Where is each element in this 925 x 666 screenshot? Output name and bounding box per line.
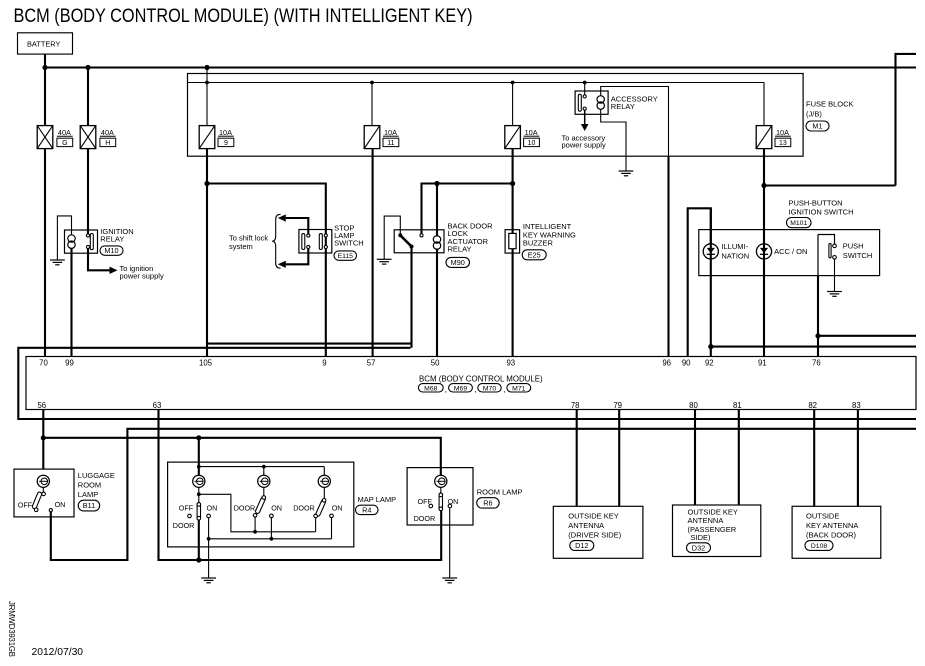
connector M1	[806, 121, 829, 131]
connector E25	[522, 250, 546, 260]
connector M71	[507, 384, 531, 392]
room lamp OFF contact	[429, 504, 433, 508]
wire BCM pin82 to D108	[813, 410, 815, 507]
ign relay switch capsule	[90, 234, 93, 250]
svg-text:D108: D108	[811, 543, 827, 550]
outside key antenna back door box D108	[792, 506, 881, 558]
svg-text:96: 96	[662, 358, 671, 367]
svg-text:OFF: OFF	[18, 500, 33, 509]
push switch capsule	[829, 244, 831, 258]
svg-text:ON: ON	[207, 503, 218, 512]
node inner bus acc relay	[583, 81, 587, 85]
stop lamp switch box E115	[299, 230, 332, 254]
svg-text:D32: D32	[692, 543, 705, 552]
push-button ignition switch box M101	[699, 230, 880, 276]
wire map lamp ground drop	[208, 539, 210, 578]
connector D108	[805, 541, 833, 551]
wire map lamp switch common	[198, 519, 200, 560]
svg-text:E115: E115	[338, 253, 354, 260]
connector R4	[356, 505, 379, 514]
back door lock actuator relay box M90	[394, 230, 444, 253]
ign relay contact bottom	[86, 245, 89, 248]
svg-text:BCM (BODY CONTROL MODULE) (WIT: BCM (BODY CONTROL MODULE) (WITH INTELLIG…	[14, 6, 473, 27]
wire pin92 to right edge	[711, 346, 916, 348]
node on bus sw2	[270, 537, 274, 541]
svg-text:ANTENNA: ANTENNA	[568, 521, 604, 530]
wire sw3 door drop	[315, 518, 317, 532]
LED illumination	[703, 244, 718, 259]
wire back door relay to pin105 line	[207, 343, 412, 345]
svg-text:MAP LAMP: MAP LAMP	[358, 495, 397, 504]
svg-text:SWITCH: SWITCH	[334, 239, 364, 248]
svg-text:(BACK DOOR): (BACK DOOR)	[806, 531, 857, 540]
map lamp box R4	[168, 462, 354, 547]
stop lamp sw capsule right	[319, 234, 322, 250]
stop lamp contact bottom-left	[307, 245, 310, 248]
stop lamp contact top-right	[324, 234, 327, 237]
node battery-fuseG junction	[42, 65, 47, 70]
connector M68	[418, 384, 443, 392]
luggage lever end	[34, 508, 38, 512]
wire battery bus	[45, 66, 916, 68]
wire stop lamp arrow top	[286, 218, 309, 234]
svg-text:ROOM: ROOM	[78, 481, 101, 490]
ground back door relay	[377, 259, 392, 264]
svg-text:99: 99	[65, 358, 74, 367]
wire ign relay coil to ground	[57, 216, 71, 260]
node on bus sw1	[207, 537, 211, 541]
svg-text:40A: 40A	[101, 128, 114, 137]
outside key antenna passenger side box D32	[673, 505, 761, 557]
wire fuse9 top stub	[206, 83, 208, 126]
wire BCM pin90 to illumination	[688, 208, 711, 356]
svg-text:M69: M69	[454, 385, 467, 392]
stop lamp contact top-left	[307, 234, 310, 237]
node back door relay coil junction	[434, 181, 439, 186]
svg-text:M71: M71	[512, 385, 525, 392]
connector D12	[570, 541, 594, 551]
map lamp bulb 1	[193, 475, 205, 487]
svg-text:H: H	[105, 140, 110, 147]
wire map lamp inner bus	[199, 466, 324, 468]
svg-text:63: 63	[153, 401, 162, 410]
svg-text:9: 9	[224, 140, 228, 147]
stop lamp sw capsule left	[302, 234, 305, 250]
wire BCM pin83 to D108	[857, 410, 859, 507]
wire back door relay ground	[384, 216, 400, 259]
fuse 13 (10A)	[756, 126, 772, 149]
fuse 9 (10A)	[199, 126, 215, 149]
wire luggage lamp return	[51, 429, 916, 560]
wire BCM pin80 to D32	[694, 410, 696, 506]
svg-text:10: 10	[528, 140, 536, 147]
node battery-fuseH junction	[85, 65, 90, 70]
wire BCM pin81 to D32	[738, 410, 740, 506]
wire door contacts bus	[199, 494, 316, 532]
ground map lamp	[201, 578, 216, 583]
svg-text:M10: M10	[104, 246, 118, 255]
node bulb1 door junction	[197, 492, 201, 496]
svg-text:power supply: power supply	[120, 271, 164, 280]
svg-text:57: 57	[367, 358, 376, 367]
map switch1 capsule	[197, 503, 200, 520]
svg-text:BATTERY: BATTERY	[27, 40, 60, 49]
map switch3 lever	[315, 499, 326, 517]
svg-text:OFF: OFF	[179, 503, 194, 512]
svg-text:,: ,	[445, 385, 447, 394]
svg-text:ROOM LAMP: ROOM LAMP	[477, 488, 523, 497]
map switch1 ON contact	[207, 514, 211, 518]
svg-text:OUTSIDE: OUTSIDE	[806, 512, 839, 521]
map switch3 DOOR contact	[314, 514, 318, 518]
svg-text:DOOR: DOOR	[234, 503, 256, 512]
wire push switch to ground	[834, 259, 836, 291]
wire acc relay coil to pin96	[601, 87, 669, 157]
svg-text:PUSH-BUTTON: PUSH-BUTTON	[789, 199, 843, 208]
svg-text:PUSH: PUSH	[843, 241, 864, 250]
svg-text:DOOR: DOOR	[293, 503, 315, 512]
svg-text:BUZZER: BUZZER	[523, 239, 554, 248]
svg-text:JRMWD3931GB: JRMWD3931GB	[7, 601, 16, 657]
svg-text:OUTSIDE KEY: OUTSIDE KEY	[568, 512, 618, 521]
svg-text:70: 70	[39, 358, 48, 367]
wire bulb2 drop	[263, 467, 265, 476]
svg-text:M68: M68	[424, 385, 437, 392]
arrow to accessory power supply	[581, 124, 589, 131]
wire fuse10 down	[512, 149, 514, 184]
svg-text:LAMP: LAMP	[78, 490, 98, 499]
map lamp bulb 2	[258, 475, 270, 487]
wire push switch bracket	[818, 235, 835, 245]
ground acc relay coil	[619, 171, 634, 176]
luggage switch pivot	[42, 492, 46, 496]
svg-text:9: 9	[322, 358, 326, 367]
map switch2 ON contact	[270, 514, 274, 518]
room lamp ON contact	[448, 504, 452, 508]
node map lamp feed junction	[196, 435, 201, 440]
wire luggage bulb to pivot	[42, 487, 44, 492]
wire fuse13 to BCM pin91	[763, 149, 765, 357]
svg-text:system: system	[229, 242, 253, 251]
ground ignition relay	[50, 260, 65, 265]
wire ON contacts bus	[209, 518, 332, 539]
node pin92 junction	[708, 344, 713, 349]
wire battery drop to inner bus	[206, 68, 208, 83]
svg-text:M90: M90	[451, 258, 465, 267]
svg-text:91: 91	[758, 358, 767, 367]
wire to ignition power supply	[88, 249, 110, 271]
wire fuse11 top stub	[371, 83, 373, 126]
luggage room lamp box B11	[14, 469, 74, 517]
connector M70	[478, 384, 501, 392]
fusible link G (40A)	[37, 126, 53, 149]
svg-text:DOOR: DOOR	[414, 514, 436, 523]
svg-text:B11: B11	[83, 501, 95, 510]
svg-text:SIDE): SIDE)	[691, 533, 712, 542]
svg-text:KEY ANTENNA: KEY ANTENNA	[806, 521, 858, 530]
map switch2 lever	[255, 496, 266, 514]
node battery-fuseblock junction	[204, 65, 209, 70]
svg-text:M101: M101	[790, 220, 807, 227]
connector M90	[446, 257, 470, 267]
svg-text:,: ,	[503, 385, 505, 394]
node fuse9 stop lamp junction	[204, 181, 209, 186]
wire fuse block inner bus	[188, 82, 764, 84]
room lamp switch capsule	[439, 493, 442, 511]
wire stop lamp arrow bottom	[286, 249, 309, 265]
node pin76 junction	[815, 333, 820, 338]
BCM (body control module) box	[26, 357, 916, 410]
wire wrap line	[18, 348, 916, 419]
svg-text:power supply: power supply	[562, 141, 606, 150]
wire acc relay to BCM pin96	[667, 156, 669, 356]
connector D32	[687, 543, 711, 553]
map lamp bulb 3	[318, 475, 330, 487]
svg-text:90: 90	[682, 358, 691, 367]
svg-text:81: 81	[733, 401, 742, 410]
fuse block (J/B) box	[188, 74, 804, 157]
wire map lamp feed drop	[198, 438, 200, 476]
wire fuse10 to relay	[422, 184, 513, 234]
accessory relay box	[575, 91, 608, 114]
svg-text:DOOR: DOOR	[173, 521, 195, 530]
stop lamp contact bottom-right	[324, 245, 327, 248]
svg-text:M70: M70	[483, 385, 496, 392]
svg-text:10A: 10A	[525, 128, 538, 137]
node map inner bus b1	[197, 465, 201, 469]
wire fuse G to BCM pin70	[44, 149, 46, 357]
svg-text:80: 80	[689, 401, 698, 410]
connector M69	[449, 384, 473, 392]
svg-text:R6: R6	[483, 499, 492, 508]
svg-text:83: 83	[852, 401, 861, 410]
wire room lamp ON to ground	[449, 508, 451, 578]
svg-text:RELAY: RELAY	[100, 234, 124, 243]
svg-text:ON: ON	[332, 503, 343, 512]
ground push switch	[827, 292, 842, 297]
acc relay contact top	[583, 95, 586, 98]
wire ign relay coil to BCM pin99	[70, 249, 72, 357]
svg-text:82: 82	[808, 401, 817, 410]
svg-text:OFF: OFF	[418, 497, 433, 506]
buzzer element	[509, 233, 516, 248]
map switch2 DOOR contact	[253, 514, 257, 518]
svg-text:G: G	[62, 140, 67, 147]
wire fuse10 to BCM pin93	[512, 184, 514, 357]
wire fuse11 to BCM pin57	[372, 149, 374, 357]
wire top-right step	[896, 54, 917, 186]
wire BCM pin63 down	[159, 410, 442, 561]
connector B11	[78, 500, 100, 511]
wire bulb1 to switch1	[198, 487, 200, 502]
push switch contact top	[833, 244, 837, 248]
back door relay arm	[400, 235, 411, 246]
svg-text:11: 11	[387, 140, 394, 147]
arrow to shift lock bottom	[278, 261, 286, 268]
wire sw2 door drop	[254, 517, 256, 532]
svg-text:IGNITION SWITCH: IGNITION SWITCH	[789, 208, 854, 217]
acc relay contact bottom	[583, 107, 586, 110]
svg-text:76: 76	[812, 358, 821, 367]
node inner bus fuse11	[370, 81, 374, 85]
node map inner bus b2	[262, 465, 266, 469]
wire pin76 to right edge	[818, 335, 916, 337]
svg-text:10A: 10A	[776, 128, 789, 137]
node door bus sw2	[253, 530, 257, 534]
wire sw2 on drop	[270, 517, 272, 538]
wire stop lamp branch	[207, 184, 326, 357]
wire bus to fusible link H	[87, 68, 89, 126]
arrow to ignition power supply	[110, 267, 118, 274]
wire BCM pin79 to D12	[618, 410, 620, 507]
wire fuse H to ignition relay	[87, 149, 89, 234]
luggage lamp bulb	[37, 475, 49, 487]
connector R6	[477, 498, 500, 508]
back door relay coil	[433, 236, 440, 243]
arrow to shift lock top	[278, 214, 286, 221]
node map lamp return junction	[196, 557, 201, 562]
node fuse10 junction	[510, 181, 515, 186]
wire room bulb to switch	[440, 487, 442, 492]
wire fuse13 to right edge	[764, 184, 896, 186]
svg-text:FUSE BLOCK: FUSE BLOCK	[806, 100, 854, 109]
wire illumination to BCM pin92	[710, 208, 712, 356]
back door relay fixed contact	[420, 234, 423, 237]
svg-text:RELAY: RELAY	[448, 245, 472, 254]
wire bus to fusible link G	[44, 68, 46, 126]
wire battery to bus	[44, 54, 46, 67]
push switch contact bottom	[833, 255, 837, 259]
intelligent key warning buzzer box E25	[505, 230, 519, 253]
wire back door relay coil top	[436, 184, 438, 237]
fusible link H (40A)	[80, 126, 96, 149]
outside key antenna driver side box D12	[553, 506, 643, 558]
svg-text:LUGGAGE: LUGGAGE	[78, 471, 115, 480]
wire BCM pin56 down	[42, 410, 44, 470]
brace to shift lock	[272, 214, 280, 268]
acc relay switch capsule	[578, 94, 581, 111]
node inner bus fuse9	[205, 81, 209, 85]
svg-text:10A: 10A	[219, 128, 232, 137]
connector M10	[100, 246, 123, 255]
map switch2 pivot	[262, 496, 266, 500]
map switch3 pivot	[322, 499, 326, 503]
wire to accessory power supply	[584, 110, 586, 124]
wire push switch to BCM pin76	[817, 235, 819, 276]
svg-text:RELAY: RELAY	[611, 102, 635, 111]
svg-text:92: 92	[705, 358, 714, 367]
svg-text:BCM (BODY CONTROL MODULE): BCM (BODY CONTROL MODULE)	[419, 375, 543, 384]
svg-text:ILLUMI-: ILLUMI-	[721, 242, 748, 251]
acc relay coil	[597, 96, 604, 103]
room lamp box R6	[407, 468, 473, 525]
map switch1 OFF contact	[188, 514, 192, 518]
wire back door relay switch output	[410, 247, 412, 348]
ignition relay box M10	[65, 230, 98, 253]
LED acc/on	[756, 244, 771, 259]
svg-text:78: 78	[571, 401, 580, 410]
svg-text:M1: M1	[812, 122, 822, 131]
svg-text:(DRIVER SIDE): (DRIVER SIDE)	[568, 531, 621, 540]
wire sw3 pivot	[323, 487, 325, 498]
luggage ON contact	[49, 509, 52, 512]
wire back door relay coil to BCM pin50	[436, 249, 438, 357]
svg-text:2012/07/30: 2012/07/30	[32, 647, 84, 658]
node inner bus fuse10	[511, 81, 515, 85]
svg-text:10A: 10A	[384, 128, 397, 137]
wire bulb3 drop	[323, 467, 325, 476]
wire fuse10 top stub	[512, 83, 514, 126]
svg-text:ACC / ON: ACC / ON	[774, 247, 807, 256]
svg-text:93: 93	[506, 358, 515, 367]
back door relay pivot	[398, 233, 402, 237]
svg-text:(J/B): (J/B)	[806, 110, 822, 119]
connector M101	[787, 218, 812, 228]
wire fuse13 top stub	[763, 83, 765, 126]
svg-text:,: ,	[474, 385, 476, 394]
fuse 10 (10A)	[505, 126, 521, 149]
wire sw3 on drop	[331, 517, 333, 538]
wire BCM pin78 to D12	[576, 410, 578, 507]
svg-text:ON: ON	[55, 500, 66, 509]
fuse 11 (10A)	[364, 126, 380, 149]
ign relay coil	[68, 235, 75, 242]
luggage switch lever	[32, 491, 42, 509]
wire pin56 lamp feed line	[43, 438, 441, 476]
svg-text:R4: R4	[362, 506, 371, 515]
wire sw2 pivot	[263, 487, 265, 496]
svg-text:79: 79	[613, 401, 622, 410]
ign relay contact top	[86, 234, 89, 237]
connector E115	[334, 251, 357, 260]
wire acc relay coil to ground	[601, 109, 626, 170]
wire fuse9 to BCM pin105	[206, 149, 208, 357]
svg-text:D12: D12	[575, 541, 588, 550]
svg-text:ON: ON	[448, 497, 459, 506]
svg-text:56: 56	[37, 401, 46, 410]
node fuse13 junction	[761, 183, 766, 188]
svg-text:E25: E25	[528, 250, 541, 259]
wire acc relay switch drop	[584, 83, 586, 96]
svg-text:NATION: NATION	[721, 252, 749, 261]
svg-text:ON: ON	[271, 503, 282, 512]
ground room lamp	[442, 578, 457, 583]
back door relay arm end	[410, 245, 414, 249]
room lamp bulb	[435, 475, 447, 487]
svg-text:SWITCH: SWITCH	[843, 251, 873, 260]
map switch3 ON contact	[330, 514, 334, 518]
node pin56 junction	[41, 435, 46, 440]
svg-text:105: 105	[199, 358, 213, 367]
svg-text:40A: 40A	[58, 128, 71, 137]
battery	[18, 33, 73, 54]
svg-text:13: 13	[779, 140, 787, 147]
svg-text:50: 50	[431, 358, 440, 367]
